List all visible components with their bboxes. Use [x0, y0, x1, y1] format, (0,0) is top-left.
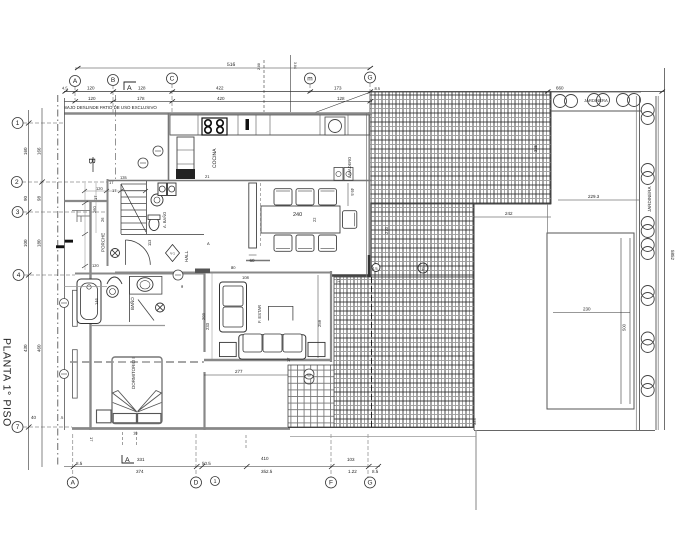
svg-text:m: m: [307, 76, 312, 83]
svg-text:90: 90: [23, 195, 28, 201]
jardinera top band: [551, 91, 641, 93]
svg-text:422: 422: [216, 86, 224, 91]
bed blanket folds: [113, 391, 137, 412]
svg-text:4.5: 4.5: [62, 86, 68, 91]
svg-text:A: A: [73, 78, 78, 85]
top small black mark: [246, 119, 250, 130]
dining table: [261, 206, 340, 233]
svg-text:A. BAÑO: A. BAÑO: [162, 212, 167, 228]
bubble G top: [365, 72, 376, 83]
svg-text:DORMITORIO I: DORMITORIO I: [131, 357, 136, 389]
bottom dim line: [64, 466, 380, 468]
svg-text:60: 60: [249, 258, 255, 263]
top dim line row3: [63, 66, 666, 103]
dim 242: [474, 216, 551, 218]
living right wall: [330, 271, 332, 362]
bubble m top: [305, 73, 316, 84]
bath circled symbol: [156, 303, 165, 312]
svg-text:242: 242: [505, 211, 513, 216]
svg-text:180: 180: [37, 239, 42, 247]
svg-text:120: 120: [96, 186, 103, 191]
dim 277: [204, 374, 288, 376]
dash-dot line kitchen left: [115, 95, 117, 180]
svg-text:8.5: 8.5: [372, 469, 379, 474]
svg-text:7: 7: [16, 424, 20, 431]
svg-text:128: 128: [138, 86, 146, 91]
bottom ticks: [71, 464, 77, 469]
porch steps: [72, 210, 90, 212]
bottom grid dashed verticals: [72, 434, 74, 477]
svg-text:128: 128: [337, 96, 345, 101]
svg-text:120: 120: [88, 96, 96, 101]
svg-text:22: 22: [312, 217, 317, 222]
nightstand: [97, 410, 112, 423]
svg-text:500: 500: [622, 323, 627, 331]
dashed section line bedroom: [70, 361, 203, 363]
hatch bottom line: [288, 427, 474, 429]
kitchen bottom wall: [107, 180, 372, 182]
right house wall upper: [368, 112, 370, 277]
svg-text:352.5: 352.5: [261, 469, 273, 474]
dim 230: [553, 312, 630, 314]
window planter left 2: [73, 350, 78, 398]
section dash overlay: [70, 361, 204, 363]
svg-text:4.5: 4.5: [372, 266, 378, 271]
svg-text:JARDINERA: JARDINERA: [584, 98, 608, 103]
svg-text:17: 17: [89, 437, 94, 442]
stove: [202, 118, 227, 135]
patio top edge: [551, 110, 641, 112]
svg-text:F: F: [329, 480, 333, 487]
left grid dashed horizontals: [23, 122, 64, 124]
svg-text:49.5: 49.5: [350, 188, 355, 197]
lower terrace step line: [290, 436, 476, 438]
bubble A top: [70, 76, 81, 87]
side strip line y101: [64, 100, 372, 102]
svg-text:W: W: [307, 373, 311, 378]
bathtub: [77, 279, 101, 324]
svg-text:160: 160: [23, 147, 28, 155]
chair b2: [296, 235, 314, 251]
terrace hatch R3: [334, 277, 474, 427]
bubble C top: [167, 73, 178, 84]
svg-text:BAÑO: BAÑO: [130, 297, 135, 310]
jardinera strip right: [635, 96, 637, 430]
side table 2: [308, 342, 325, 356]
svg-text:A: A: [207, 241, 210, 246]
bed pillows: [113, 414, 136, 423]
svg-text:1: 1: [213, 479, 216, 485]
plants right strip: [641, 104, 654, 397]
top exterior wall: [64, 112, 372, 115]
wc machines: [158, 183, 167, 196]
svg-text:V-1: V-1: [170, 252, 175, 256]
bottom bubbles: [67, 477, 78, 488]
svg-text:JARDINERA: JARDINERA: [647, 186, 652, 212]
svg-text:COCINA: COCINA: [212, 148, 218, 168]
svg-text:8.5: 8.5: [375, 86, 381, 91]
svg-text:1: 1: [16, 120, 20, 127]
lawn rect: [547, 233, 634, 409]
svg-text:516: 516: [227, 62, 236, 68]
gray vertical below terrace: [475, 430, 477, 510]
svg-text:410: 410: [261, 456, 269, 461]
sofa 3 seat: [239, 335, 306, 359]
svg-text:A: A: [125, 457, 130, 464]
terrace hatch R2: [371, 204, 474, 277]
svg-text:21: 21: [205, 174, 210, 179]
bath bottom wall: [91, 325, 165, 327]
circled symbol hall: [173, 270, 183, 280]
svg-text:1.22: 1.22: [348, 469, 357, 474]
svg-text:A: A: [71, 480, 76, 487]
bedroom left exterior wall: [89, 201, 91, 430]
svg-text:166: 166: [37, 147, 42, 155]
living bottom wall: [204, 359, 332, 361]
svg-text:113: 113: [147, 239, 152, 246]
svg-text:17: 17: [93, 195, 98, 200]
terrace hatch R4 light: [288, 365, 334, 427]
svg-text:260: 260: [92, 206, 97, 213]
bath door leaf: [138, 300, 154, 321]
stairs dim lines: [84, 190, 146, 192]
fridge: [177, 137, 194, 178]
side table 1: [220, 342, 237, 356]
svg-text:PLANTA 1° PISO: PLANTA 1° PISO: [1, 338, 13, 427]
dash-dot property line left: [57, 95, 59, 466]
svg-text:5852: 5852: [670, 250, 675, 261]
svg-text:331: 331: [137, 457, 145, 462]
svg-text:2.88: 2.88: [257, 63, 261, 70]
window planter left 1: [73, 290, 78, 326]
svg-text:80: 80: [231, 265, 236, 270]
svg-text:BAJO DESLINDE PATIO DE USO EXC: BAJO DESLINDE PATIO DE USO EXCLUSIVO: [64, 105, 157, 110]
svg-text:325: 325: [533, 144, 538, 152]
svg-text:420: 420: [217, 96, 225, 101]
svg-text:B: B: [111, 77, 115, 84]
inner wall line dining right: [366, 113, 368, 277]
bath partition wall: [129, 276, 131, 322]
svg-text:B: B: [87, 158, 97, 164]
svg-text:98: 98: [37, 195, 42, 201]
svg-text:A: A: [127, 85, 132, 92]
hatch edge walls: [550, 92, 552, 204]
tick marks left: [26, 121, 32, 126]
svg-text:40: 40: [31, 415, 37, 420]
section marker A bottom: [122, 455, 134, 463]
bed: [112, 357, 162, 424]
house bottom wall: [72, 427, 290, 430]
svg-text:173: 173: [334, 86, 342, 91]
svg-text:17: 17: [112, 188, 117, 193]
toilet room wall: [146, 181, 148, 234]
side strip line y92: [64, 91, 665, 93]
dark appliance: [176, 169, 195, 179]
svg-text:660: 660: [556, 86, 564, 91]
long bottom line to right: [474, 430, 655, 432]
dashed door line: [260, 183, 262, 248]
svg-text:9: 9: [181, 284, 184, 289]
terrace hatch R1 top right: [370, 92, 551, 204]
svg-text:17: 17: [286, 357, 291, 362]
stairs treads: [121, 183, 146, 185]
wc toilet: [149, 218, 159, 231]
dim 229.3: [558, 199, 639, 201]
svg-text:100: 100: [23, 239, 28, 247]
porch top wall: [65, 200, 108, 202]
svg-text:17: 17: [336, 278, 341, 283]
section marker A top: [124, 82, 136, 90]
patio left edge line: [547, 204, 549, 233]
sofa vertical: [220, 282, 247, 332]
svg-text:103: 103: [347, 457, 355, 462]
svg-text:146: 146: [94, 298, 99, 305]
svg-text:120: 120: [92, 263, 99, 268]
hall diamond: [166, 245, 180, 262]
kitchen left wall: [168, 113, 170, 180]
porch flower symbol: [111, 249, 120, 258]
hall left wall: [107, 179, 109, 266]
lavadero machines: [334, 168, 343, 181]
stairs diagonal: [121, 184, 146, 232]
svg-text:178: 178: [137, 96, 145, 101]
svg-text:323: 323: [472, 418, 477, 425]
wall stub dining left: [246, 260, 270, 262]
left boundary solid: [64, 98, 66, 430]
circled symbols kitchen left: [138, 158, 148, 168]
svg-text:E: E: [422, 267, 425, 272]
vanity: [130, 276, 162, 294]
sink circle: [325, 117, 345, 135]
svg-text:PORCHE: PORCHE: [101, 233, 106, 252]
chair b1: [274, 235, 292, 251]
chair right: [343, 211, 357, 229]
bath dim line: [64, 286, 107, 288]
svg-text:203: 203: [201, 313, 206, 320]
rug open rect: [268, 306, 293, 320]
entry door arc: [125, 240, 150, 265]
svg-text:F. ESTAR: F. ESTAR: [257, 305, 262, 323]
svg-text:430: 430: [23, 344, 28, 352]
svg-text:3: 3: [16, 209, 20, 216]
top dim line 516: [75, 67, 370, 69]
circled symbol hatch: [418, 263, 428, 273]
svg-text:26: 26: [100, 217, 105, 222]
bath sink: [137, 278, 153, 292]
hall bottom wall: [115, 272, 332, 274]
chair t1: [274, 189, 292, 205]
svg-text:HALL: HALL: [184, 250, 189, 262]
chair t3: [319, 189, 337, 205]
svg-text:LAVADERO: LAVADERO: [347, 157, 352, 178]
svg-text:C: C: [170, 76, 175, 83]
side counter: [249, 183, 257, 248]
svg-text:17: 17: [109, 180, 114, 185]
svg-text:3.84: 3.84: [293, 62, 297, 69]
hall threshold: [195, 269, 210, 274]
svg-text:108: 108: [242, 275, 249, 280]
black wall chunk marks: [65, 240, 74, 243]
counter band: [170, 115, 370, 135]
bath top wall: [75, 273, 204, 275]
svg-text:4: 4: [17, 272, 21, 279]
svg-text:D: D: [194, 480, 199, 487]
svg-text:233: 233: [205, 322, 210, 330]
svg-text:135: 135: [120, 175, 127, 180]
bath toilet: [107, 286, 119, 298]
left dim vertical lines: [28, 110, 30, 470]
circled symbol living: [304, 369, 314, 379]
wc sink: [151, 194, 163, 206]
svg-text:G: G: [367, 75, 372, 82]
grid dashed verticals: [74, 86, 76, 100]
chair t2: [296, 189, 314, 205]
svg-text:374: 374: [136, 469, 144, 474]
svg-text:G: G: [367, 480, 372, 487]
diagonal leader: [316, 92, 372, 113]
bedroom right wall: [203, 271, 205, 352]
svg-text:.5: .5: [60, 415, 64, 420]
right boundary lines: [664, 68, 666, 430]
svg-text:8.5: 8.5: [76, 461, 83, 466]
svg-text:18: 18: [133, 431, 138, 436]
svg-text:277: 277: [235, 369, 243, 374]
svg-text:460: 460: [37, 344, 42, 352]
svg-text:120: 120: [87, 86, 95, 91]
svg-text:270: 270: [384, 226, 389, 234]
dim 49.5: [347, 183, 349, 206]
bubble B top: [108, 75, 119, 86]
left bubbles: [12, 118, 23, 129]
chair b3: [319, 235, 337, 251]
svg-text:230: 230: [583, 307, 591, 312]
plants top row: [554, 94, 641, 108]
circled symbol left 1: [60, 299, 69, 308]
svg-text:240: 240: [293, 212, 302, 218]
svg-text:2: 2: [15, 179, 19, 186]
svg-text:229.3: 229.3: [588, 194, 600, 199]
bath bidet: [107, 277, 122, 284]
circled symbol left 2: [60, 370, 69, 379]
small dashed studs top: [263, 60, 265, 112]
dashed wall line in hatch: [371, 277, 373, 427]
